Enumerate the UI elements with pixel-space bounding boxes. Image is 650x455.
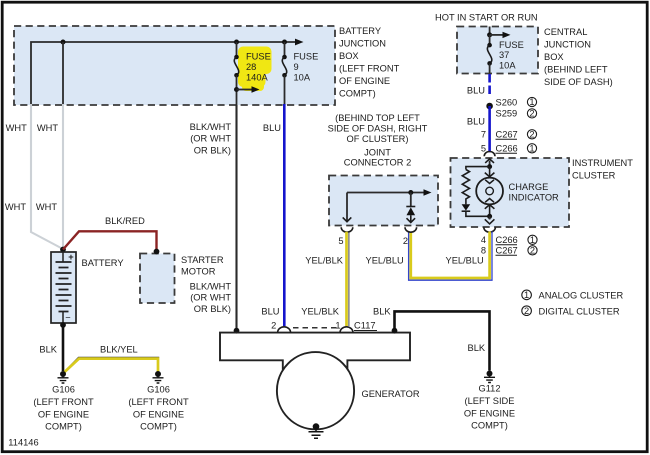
starter motor box (dashed) [140, 254, 175, 304]
svg-text:BLK: BLK [373, 306, 391, 316]
svg-text:BLU: BLU [263, 123, 281, 133]
wire BLK/WHT fuse 28 to generator [235, 105, 237, 330]
svg-text:COMPT): COMPT) [140, 422, 177, 432]
svg-text:1: 1 [524, 290, 529, 300]
wire BLK/YEL to ground [64, 357, 159, 372]
text C117 [354, 320, 377, 330]
wire WHT 2 [62, 104, 64, 249]
svg-text:OF ENGINE: OF ENGINE [133, 409, 184, 419]
wire out of cluster [489, 216, 491, 219]
svg-text:COMPT): COMPT) [45, 422, 82, 432]
svg-text:C267: C267 [496, 245, 518, 255]
svg-text:FUSE: FUSE [246, 52, 271, 62]
node cluster top [487, 164, 492, 169]
battery B1 [51, 252, 76, 323]
svg-text:GENERATOR: GENERATOR [362, 389, 420, 399]
text fuse 28 label [246, 52, 271, 83]
wire BLU dashed below CJB [488, 74, 491, 94]
svg-text:2: 2 [524, 306, 529, 316]
svg-text:OF ENGINE: OF ENGINE [38, 409, 89, 419]
svg-text:(LEFT FRONT: (LEFT FRONT [33, 397, 94, 407]
node on bus fuse 9 [282, 40, 287, 45]
text pin 8 C267 [481, 245, 537, 255]
svg-text:INSTRUMENT: INSTRUMENT [572, 158, 633, 168]
lamp feed [489, 167, 491, 178]
svg-text:−: − [65, 313, 70, 323]
svg-text:S259: S259 [496, 109, 518, 119]
lamp filament chevron bottom [485, 199, 494, 203]
node generator left terminal [234, 328, 240, 334]
text fuse 9 label [294, 52, 319, 83]
wire into cluster [489, 161, 491, 167]
ground generator case [309, 423, 324, 438]
text G112 caption [464, 384, 515, 431]
node CJB tap [487, 32, 492, 37]
text BLK/WHT label bottom [190, 281, 232, 314]
svg-text:(LEFT SIDE: (LEFT SIDE [465, 396, 515, 406]
branch to resistor [466, 167, 490, 170]
svg-text:+: + [68, 252, 74, 262]
svg-text:YEL/BLK: YEL/BLK [301, 306, 340, 316]
svg-text:CLUSTER: CLUSTER [572, 171, 616, 181]
svg-text:FUSE: FUSE [294, 52, 319, 62]
svg-text:WHT: WHT [36, 202, 57, 212]
arrow tap in CJB [490, 32, 511, 38]
svg-text:BATTERY: BATTERY [339, 26, 381, 36]
svg-text:(BEHIND LEFT: (BEHIND LEFT [544, 65, 608, 75]
svg-text:C266: C266 [496, 235, 518, 245]
node starter motor terminal [154, 249, 160, 255]
svg-text:28: 28 [246, 62, 256, 72]
svg-text:C267: C267 [496, 129, 518, 139]
svg-text:COMPT): COMPT) [339, 89, 376, 99]
text G106 left caption [33, 385, 94, 432]
text WHT labels row 1 [6, 123, 59, 133]
ground G106 left [58, 371, 69, 383]
svg-text:BLK/WHT: BLK/WHT [190, 281, 232, 291]
legend analog cluster [522, 290, 624, 301]
node cluster bottom [487, 214, 492, 219]
text pin 5 C266 [481, 143, 537, 153]
svg-text:BOX: BOX [544, 52, 564, 62]
wire BLK/RED battery to starter [63, 231, 157, 250]
svg-text:INDICATOR: INDICATOR [509, 193, 560, 203]
text WHT labels row 2 [5, 202, 57, 212]
svg-text:YEL/BLU: YEL/BLU [446, 256, 484, 266]
diode in cluster [462, 203, 490, 216]
svg-text:(OR WHT: (OR WHT [190, 134, 231, 144]
svg-text:BATTERY: BATTERY [82, 258, 124, 268]
text BLK/WHT label top [190, 122, 232, 155]
node on bus fuse 28 [234, 40, 239, 45]
svg-text:1: 1 [529, 97, 534, 107]
svg-text:WHT: WHT [6, 123, 27, 133]
text charge indicator [509, 182, 560, 203]
svg-text:C117: C117 [354, 320, 376, 330]
svg-text:G106: G106 [52, 385, 75, 395]
svg-text:S260: S260 [496, 97, 518, 107]
lamp filament loop [486, 187, 494, 195]
svg-text:10A: 10A [294, 72, 311, 82]
svg-text:4: 4 [481, 235, 486, 245]
svg-text:CENTRAL: CENTRAL [544, 27, 587, 37]
svg-text:BLK/WHT: BLK/WHT [190, 122, 232, 132]
svg-text:WHT: WHT [37, 123, 58, 133]
lamp to node wire [489, 204, 491, 216]
svg-text:10A: 10A [499, 61, 516, 71]
lamp filament chevron [485, 180, 494, 184]
battery junction box (dashed) [14, 26, 335, 105]
svg-text:(OR WHT: (OR WHT [190, 293, 231, 303]
node joint connector [408, 190, 413, 195]
text pin 4 C266 [481, 235, 537, 245]
svg-text:YEL/BLU: YEL/BLU [366, 256, 404, 266]
svg-text:1: 1 [335, 321, 340, 331]
svg-text:CONNECTOR 2: CONNECTOR 2 [344, 157, 412, 167]
svg-text:JUNCTION: JUNCTION [544, 40, 591, 50]
svg-text:2: 2 [403, 236, 408, 246]
text central junction box caption [544, 27, 613, 87]
text joint connector 2 caption [344, 148, 412, 168]
svg-text:BLU: BLU [467, 116, 485, 126]
lamp socket chevron top [485, 173, 495, 177]
svg-text:5: 5 [338, 236, 343, 246]
fuse F9 10A [282, 42, 287, 104]
svg-text:OR BLK): OR BLK) [194, 145, 231, 155]
svg-text:JOINT: JOINT [364, 148, 391, 158]
svg-text:5: 5 [481, 143, 486, 153]
connector symbol joint pin 2 [405, 227, 417, 232]
generator circle [277, 352, 354, 429]
connector C117 dashed edge [293, 327, 338, 329]
svg-text:STARTER: STARTER [181, 255, 224, 265]
connector symbol joint pin 5 [341, 227, 353, 232]
svg-text:WHT: WHT [5, 202, 26, 212]
node battery positive [60, 247, 66, 253]
connector C266 pin 5 symbol [484, 152, 495, 163]
digital marker at S259 [527, 108, 536, 118]
svg-text:OF CLUSTER): OF CLUSTER) [347, 134, 409, 144]
svg-text:G112: G112 [478, 384, 500, 394]
text starter motor caption [181, 255, 224, 277]
svg-text:(BEHIND TOP LEFT: (BEHIND TOP LEFT [335, 113, 420, 123]
svg-text:OF ENGINE: OF ENGINE [339, 76, 390, 86]
joint connector pin 5 drop [343, 193, 352, 222]
splice S260 S259 [486, 103, 493, 110]
svg-text:9: 9 [294, 62, 299, 72]
svg-text:7: 7 [481, 129, 486, 139]
node on bus for WHT wire [61, 40, 66, 45]
fuse F37 10A [487, 35, 492, 74]
svg-text:1: 1 [530, 235, 535, 245]
svg-text:FUSE: FUSE [499, 40, 524, 50]
text fuse 37 label [499, 40, 524, 70]
svg-text:OR BLK): OR BLK) [194, 304, 231, 314]
svg-text:BLU: BLU [261, 306, 279, 316]
svg-text:C266: C266 [496, 143, 518, 153]
svg-text:(LEFT FRONT: (LEFT FRONT [128, 397, 189, 407]
instrument cluster box (dashed) [451, 158, 570, 227]
arrow tap below fuse 28 [237, 86, 260, 93]
wire BLU splice to cluster [488, 106, 491, 152]
resistor in cluster [462, 170, 469, 204]
svg-text:BLK/RED: BLK/RED [105, 216, 145, 226]
svg-text:CHARGE: CHARGE [509, 182, 549, 192]
highlighter mark over FUSE 28 140A [238, 47, 272, 92]
svg-text:COMPT): COMPT) [471, 421, 508, 431]
wire BLK battery to ground [62, 325, 65, 371]
svg-text:SIDE OF DASH, RIGHT: SIDE OF DASH, RIGHT [328, 124, 428, 134]
joint connector 2 box (dashed) [329, 176, 438, 226]
svg-text:MOTOR: MOTOR [181, 267, 216, 277]
node generator right terminal [392, 328, 398, 334]
legend digital cluster [522, 306, 620, 317]
wire YEL/BLU cluster to joint connector [409, 232, 492, 281]
joint connector 2 internal bus [347, 189, 432, 195]
svg-text:2: 2 [529, 129, 534, 139]
wire BLU fuse 9 to generator pin 2 [283, 104, 286, 326]
svg-text:114146: 114146 [8, 437, 38, 447]
text G106 right caption [128, 385, 189, 432]
svg-text:YEL/BLK: YEL/BLK [305, 256, 344, 266]
node battery negative [60, 322, 66, 328]
svg-text:OF ENGINE: OF ENGINE [464, 408, 515, 418]
generator body [220, 333, 410, 370]
wire WHT stub in box [62, 42, 64, 104]
connector C117 pin 2 bump [278, 327, 291, 333]
svg-text:BLU: BLU [467, 86, 485, 96]
connector C266 pin 4 symbol [484, 219, 496, 232]
connector C117 pin 1 bump [340, 327, 353, 333]
svg-text:ANALOG CLUSTER: ANALOG CLUSTER [539, 291, 624, 301]
central junction box (dashed) [457, 27, 538, 74]
svg-text:8: 8 [481, 245, 486, 255]
diode in joint connector [406, 193, 415, 223]
bus arrowhead [295, 39, 304, 46]
svg-text:37: 37 [499, 50, 509, 60]
fuse F28 140A [234, 42, 239, 105]
svg-text:SIDE OF DASH): SIDE OF DASH) [544, 77, 613, 87]
junction node below fuse 28 [234, 87, 239, 92]
svg-text:BLK/YEL: BLK/YEL [100, 345, 138, 355]
ground G106 right [153, 371, 164, 383]
svg-text:HOT IN START OR RUN: HOT IN START OR RUN [435, 13, 538, 23]
svg-text:BOX: BOX [339, 51, 359, 61]
ground G112 [484, 371, 495, 383]
svg-text:JUNCTION: JUNCTION [339, 39, 386, 49]
svg-text:1: 1 [529, 143, 534, 153]
svg-text:DIGITAL CLUSTER: DIGITAL CLUSTER [539, 306, 620, 316]
central junction box feed wire [489, 27, 491, 35]
svg-text:140A: 140A [246, 72, 269, 82]
wire BLK generator to G112 [395, 311, 490, 370]
analog marker at S260 [527, 97, 536, 107]
wire WHT 1 (left) [31, 104, 62, 249]
svg-text:BLK: BLK [39, 345, 57, 355]
text pin 7 C267 [481, 129, 537, 139]
text battery junction box caption [339, 26, 400, 99]
svg-text:2: 2 [271, 321, 276, 331]
svg-text:2: 2 [530, 245, 535, 255]
text instrument cluster caption [572, 158, 633, 181]
svg-text:G106: G106 [147, 385, 170, 395]
svg-text:BLK: BLK [468, 343, 486, 353]
wire YEL/BLK joint connector to generator pin 1 [347, 232, 349, 326]
text behind top left caption [328, 113, 428, 144]
charge indicator lamp [476, 178, 503, 205]
svg-text:2: 2 [529, 108, 534, 118]
bus wire in battery junction box [31, 42, 295, 104]
lamp socket chevron bottom [485, 205, 495, 209]
svg-text:(LEFT FRONT: (LEFT FRONT [339, 64, 400, 74]
